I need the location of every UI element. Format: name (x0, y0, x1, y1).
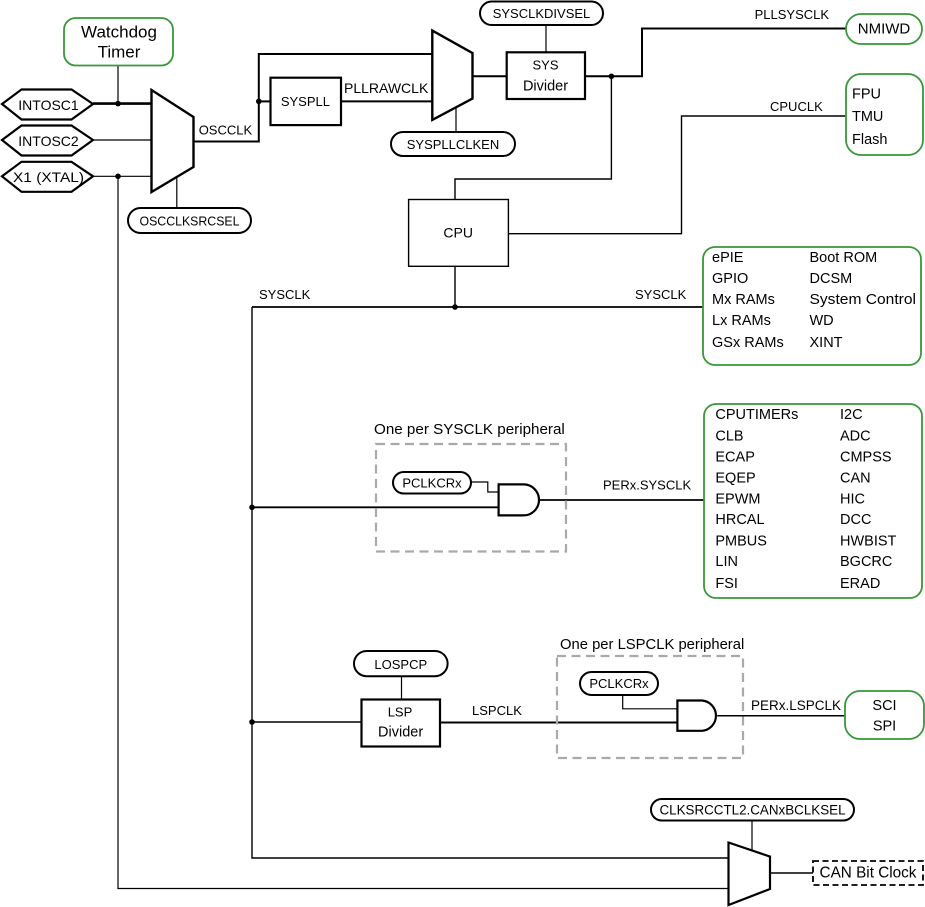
svg-text:ePIE: ePIE (712, 250, 744, 266)
svg-text:EPWM: EPWM (715, 492, 760, 508)
svg-text:FSI: FSI (715, 576, 738, 592)
input INTOSC1 (2, 90, 93, 120)
svg-text:SCI: SCI (872, 698, 896, 714)
wire: LSPCLK to AND2 (440, 722, 677, 724)
wire: OSCCLK from mux1, up and over to mux2 (194, 54, 433, 142)
register SYSPLLCLKEN (391, 132, 515, 156)
wire: PLLSYSCLK down to CPU (455, 76, 611, 199)
dashed enclosure 2 (557, 656, 743, 758)
gate AND1 (499, 484, 539, 515)
svg-text:PMBUS: PMBUS (715, 533, 767, 549)
wire: CPUCLK to FPU/TMU/Flash (508, 116, 846, 234)
svg-text:System Control: System Control (810, 292, 917, 308)
wire: PERx.SYSCLK AND1 out (539, 499, 704, 501)
svg-text:PCLKCRx: PCLKCRx (589, 676, 649, 691)
wire: OSCCLK branch into SYSPLL (259, 100, 271, 102)
wire: PERx.LSPCLK AND2 out (717, 715, 845, 717)
svg-text:LSPCLK: LSPCLK (472, 703, 522, 718)
svg-text:ERAD: ERAD (840, 576, 880, 592)
svg-text:CPUCLK: CPUCLK (770, 99, 823, 114)
node: SYSCLK bus junction at CPU (452, 304, 458, 310)
wire: SYSCLK left vertical down to CAN mux (252, 307, 729, 858)
svg-text:GPIO: GPIO (712, 271, 748, 287)
node: SYSCLK junction at AND1 (249, 505, 255, 511)
svg-text:Divider: Divider (378, 725, 423, 741)
svg-text:Flash: Flash (852, 132, 887, 148)
svg-text:Lx RAMs: Lx RAMs (712, 313, 771, 329)
gate AND2 (677, 701, 716, 731)
mux M1: oscillator source select (152, 90, 194, 192)
input X1 (XTAL) (2, 162, 93, 192)
register PCLKCRx (LSPCLK) (580, 672, 658, 695)
wire: mux1 select to OSCCLKSRCSEL (176, 178, 178, 208)
svg-text:PCLKCRx: PCLKCRx (402, 476, 462, 491)
node: watchdog/INTOSC1 junction (115, 101, 121, 107)
svg-text:One per SYSCLK peripheral: One per SYSCLK peripheral (374, 421, 565, 438)
svg-text:HIC: HIC (840, 492, 865, 508)
register CLKSRCCTL2.CANxBCLKSEL (651, 799, 854, 821)
mux M3: CAN bit clock select (729, 843, 771, 906)
svg-text:CAN: CAN (840, 471, 871, 487)
svg-text:HRCAL: HRCAL (715, 512, 764, 528)
node: PLLSYSCLK junction (609, 74, 615, 80)
svg-text:Watchdog: Watchdog (81, 22, 157, 41)
wire: CPU down to SYSCLK bus (454, 266, 456, 307)
svg-text:INTOSC1: INTOSC1 (18, 97, 79, 113)
svg-text:INTOSC2: INTOSC2 (18, 133, 79, 149)
node: X1 junction (115, 174, 121, 180)
svg-text:SYSCLK: SYSCLK (635, 287, 687, 302)
node: OSCCLK junction (256, 99, 262, 105)
svg-text:SYSCLKDIVSEL: SYSCLKDIVSEL (493, 6, 591, 21)
svg-text:X1 (XTAL): X1 (XTAL) (13, 169, 84, 185)
svg-text:I2C: I2C (840, 407, 863, 423)
svg-text:Divider: Divider (523, 79, 568, 95)
svg-text:DCC: DCC (840, 512, 871, 528)
svg-text:CAN Bit Clock: CAN Bit Clock (820, 865, 917, 882)
block: Watchdog Timer (64, 18, 173, 66)
wire: CLKSRCCTL2 select to CAN mux (751, 821, 753, 851)
svg-text:HWBIST: HWBIST (840, 533, 897, 549)
svg-text:CPU: CPU (443, 225, 473, 241)
svg-text:ECAP: ECAP (715, 450, 755, 466)
wire: X1 long run to CAN mux (118, 176, 729, 888)
svg-text:One per LSPCLK peripheral: One per LSPCLK peripheral (560, 637, 744, 653)
wire: mux2 out to SYS Divider (473, 75, 507, 77)
wire: INTOSC2 to mux (93, 139, 152, 141)
dashed enclosure 1 (376, 444, 566, 552)
wire: CAN mux out to CAN Bit Clock (770, 872, 813, 874)
node: SYSCLK junction at LSP (249, 719, 255, 725)
register SYSCLKDIVSEL (480, 2, 603, 26)
block SYSPLL (271, 78, 342, 125)
svg-text:GSx RAMs: GSx RAMs (712, 335, 784, 351)
wire: INTOSC1 to mux (93, 102, 152, 105)
svg-text:OSCCLK: OSCCLK (199, 122, 253, 137)
svg-text:LOSPCP: LOSPCP (374, 657, 427, 672)
block ePIE peripherals (703, 247, 921, 365)
svg-text:SYS: SYS (532, 58, 558, 73)
svg-text:PERx.SYSCLK: PERx.SYSCLK (603, 477, 691, 492)
wire: mux2 select to SYSPLLCLKEN (455, 107, 457, 132)
mux M2: PLL bypass select (432, 31, 472, 120)
register PCLKCRx (SYSCLK) (393, 472, 471, 494)
block SYS Divider (507, 52, 585, 99)
svg-text:EQEP: EQEP (715, 471, 755, 487)
svg-text:PERx.LSPCLK: PERx.LSPCLK (751, 698, 841, 713)
svg-text:SYSPLLCLKEN: SYSPLLCLKEN (407, 137, 500, 152)
svg-text:TMU: TMU (852, 109, 883, 125)
wire: LOSPCP to LSP Divider (401, 676, 403, 699)
svg-text:NMIWD: NMIWD (858, 21, 911, 38)
svg-text:ADC: ADC (840, 429, 871, 445)
svg-text:WD: WD (810, 313, 834, 329)
register LOSPCP (354, 651, 448, 676)
svg-text:Timer: Timer (98, 43, 141, 62)
svg-text:Mx RAMs: Mx RAMs (712, 292, 775, 308)
wire: SYSCLK bus (252, 306, 703, 308)
svg-text:BGCRC: BGCRC (840, 554, 892, 570)
wire: PLLSYSCLK to NMIWD (585, 29, 846, 77)
block CPU (409, 200, 509, 267)
wire: SYSCLK into AND1 (252, 506, 499, 508)
wire: SYSCLK into LSP Divider (252, 721, 362, 723)
svg-text:PLLRAWCLK: PLLRAWCLK (344, 80, 429, 96)
block LSP Divider (362, 700, 441, 747)
block CAN Bit Clock (813, 861, 923, 885)
svg-text:DCSM: DCSM (810, 271, 853, 287)
register OSCCLKSRCSEL (128, 208, 251, 233)
block NMIWD (846, 14, 922, 44)
svg-text:CLB: CLB (715, 429, 743, 445)
wire: PCLKCRx2 to AND2 (623, 695, 678, 709)
svg-text:CMPSS: CMPSS (840, 450, 892, 466)
svg-text:FPU: FPU (852, 86, 881, 102)
svg-text:OSCCLKSRCSEL: OSCCLKSRCSEL (140, 214, 240, 229)
wire: X1 to mux (93, 175, 152, 177)
svg-text:CLKSRCCTL2.CANxBCLKSEL: CLKSRCCTL2.CANxBCLKSEL (659, 803, 845, 818)
block SCI SPI (845, 691, 924, 739)
input INTOSC2 (2, 126, 93, 156)
wire: SYSCLKDIVSEL to SYS Divider (545, 25, 547, 52)
svg-text:XINT: XINT (810, 335, 843, 351)
svg-text:LIN: LIN (715, 554, 738, 570)
block FPU TMU Flash (846, 74, 923, 155)
svg-text:PLLSYSCLK: PLLSYSCLK (755, 7, 830, 22)
svg-text:SPI: SPI (873, 718, 896, 734)
svg-text:Boot ROM: Boot ROM (810, 250, 878, 266)
wire: watchdog feed from INTOSC1 (117, 66, 119, 104)
svg-text:SYSCLK: SYSCLK (259, 287, 311, 302)
wire: PCLKCRx to AND1 (471, 482, 499, 492)
svg-text:SYSPLL: SYSPLL (281, 94, 330, 109)
svg-text:LSP: LSP (388, 705, 413, 720)
svg-text:CPUTIMERs: CPUTIMERs (715, 407, 798, 423)
block SYSCLK peripherals list (704, 404, 922, 598)
wire: PLLRAWCLK SYSPLL out to mux2 (341, 100, 432, 102)
